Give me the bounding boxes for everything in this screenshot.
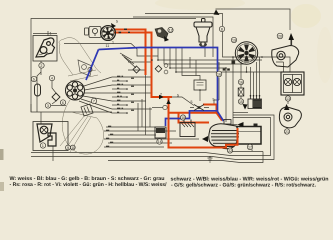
number 3 ring (45, 103, 50, 108)
pilot lamp symbol (37, 124, 56, 146)
connector block right (232, 61, 235, 64)
number 16 ring fuse column (238, 79, 243, 84)
terminal dots column (126, 80, 128, 114)
number 12 ring (168, 27, 173, 32)
wire: ladder drop 3 / bus y68 to engine (170, 48, 226, 123)
arrow up right (289, 33, 295, 45)
wire: red engine feed (203, 105, 222, 121)
svg-text:5: 5 (116, 20, 118, 24)
arrow at coil (214, 10, 220, 16)
wire: terminal stub y81 (112, 80, 127, 82)
wire: terminal stub y97 (112, 96, 127, 98)
wire: vertical x196 (195, 60, 197, 76)
wire: ring 3 to stator (51, 105, 66, 107)
wire: blue main run (99, 48, 218, 112)
wire: center mesh y62 (128, 61, 152, 63)
wire: rear lamp to number 21 (286, 128, 288, 129)
wire: handlebar line with label 1 (64, 44, 158, 57)
svg-text:19: 19 (232, 38, 236, 42)
number 14 ring (157, 139, 162, 144)
engine block (209, 120, 239, 149)
regulator rectifier (248, 95, 262, 109)
junction dots (151, 56, 263, 91)
wire: harness line y143 (108, 142, 172, 144)
svg-text:22: 22 (228, 149, 232, 153)
switch small box (194, 80, 206, 101)
arrow on red vertical (166, 100, 170, 105)
wire: stator fan line 5 (81, 99, 112, 109)
svg-text:1: 1 (42, 144, 44, 148)
headlamp housing box (33, 36, 57, 62)
number 2 ring (39, 63, 44, 68)
svg-text:5: 5 (33, 78, 35, 82)
wire: lamp unit drop (52, 146, 54, 161)
label 11 blue (106, 44, 110, 48)
diamond junction upper (133, 66, 140, 73)
wire: stator fan line 6 (79, 101, 112, 113)
wire: ladder drop 4 / bus y72 to tail lamp (176, 48, 281, 73)
arrow at regulator (243, 104, 248, 110)
number 10 ring solenoid (180, 115, 185, 120)
svg-text:16: 16 (217, 73, 221, 77)
wire: harness line y139 (104, 138, 199, 140)
wire: red branch to solenoid and engine left (179, 113, 210, 123)
arrow at rear lamp (284, 104, 290, 110)
label 1 at headlamp (50, 32, 52, 36)
wire: blue engine feed (218, 112, 224, 122)
battery (237, 124, 261, 145)
arrow on red mid (159, 95, 164, 99)
wire: terminal stub y101 (112, 100, 146, 102)
wire: right column vertical x233 (232, 57, 234, 125)
wire: terminal stub y89 (112, 88, 127, 90)
flywheel fan (235, 42, 257, 64)
label 2 at red arrow (160, 92, 162, 96)
svg-text:W: weiss - Bl: blau - G: gelb: W: weiss - Bl: blau - G: gelb - B: braun… (10, 176, 165, 182)
speedometer wheel (101, 26, 116, 41)
svg-text:11: 11 (106, 44, 110, 48)
paper stain top (155, 0, 245, 10)
wire: terminal stub y105 (112, 104, 127, 106)
wire: stator fan line 4 (83, 96, 112, 101)
speedometer lamp box (85, 27, 102, 38)
label ring b (164, 70, 168, 74)
number 18 ring (230, 140, 235, 146)
number 16 ring right (216, 71, 222, 77)
wire: condenser branch (37, 61, 41, 112)
arrow at speedometer (111, 23, 116, 28)
number 11 ring mid (163, 105, 167, 109)
svg-text:5: 5 (213, 97, 215, 101)
edge smudge left bottom (0, 182, 4, 191)
wire: red lighting lead upper (114, 30, 146, 76)
number 20 ring (277, 33, 283, 39)
wire: x146 continuation (145, 75, 147, 113)
rear lamp (279, 107, 301, 128)
svg-text:- Rs: rosa - R: rot - Vi: viol: - Rs: rosa - R: rot - Vi: violett - Gü: … (10, 182, 168, 188)
number 8 ring (219, 26, 224, 31)
svg-text:21: 21 (285, 130, 289, 134)
wire: fan feed (246, 67, 248, 73)
wire: blue return zigzag (166, 111, 218, 126)
wire: terminal stub y109 (112, 108, 152, 110)
label 5 left of switch (191, 100, 193, 104)
svg-text:9: 9 (67, 146, 69, 150)
condenser (35, 84, 41, 96)
number 22 ring (227, 148, 232, 153)
wire: stator fan line 1 (84, 77, 112, 86)
svg-text:schwarz - W/Bl: weiss/blau - W: schwarz - W/Bl: weiss/blau - W/R: weiss/… (171, 176, 329, 182)
wire: contact breaker branch (52, 81, 56, 104)
wire: battery sense line (230, 124, 238, 126)
pedal lever (78, 60, 92, 76)
ground symbol (208, 156, 213, 162)
wire: stub link to ring 11 (152, 107, 163, 109)
wire: link red end to stop switch (172, 97, 194, 106)
number 10 ring (70, 145, 75, 150)
wire: second top stepped line (133, 17, 213, 57)
number 17 ring (247, 144, 252, 149)
wire: headlamp box feed (33, 31, 57, 36)
wire: bottom frame line 1 (31, 118, 271, 156)
wire: terminal stub y93 (112, 92, 152, 94)
svg-text:5: 5 (191, 100, 193, 104)
wire: blue left tail (86, 50, 99, 81)
svg-text:7: 7 (93, 100, 95, 104)
edge smudge left middle (0, 149, 4, 160)
contact breaker diamond (52, 93, 60, 101)
svg-text:6: 6 (62, 101, 64, 105)
legend text (10, 176, 329, 189)
small labels misc (119, 29, 131, 34)
fuse (238, 88, 244, 96)
headlamp reflector (36, 38, 55, 57)
wire: tail lamp feeds (276, 62, 284, 72)
svg-text:16: 16 (239, 80, 243, 84)
number 1 ring bottom left (40, 143, 45, 148)
wire: stub drop x146 (145, 113, 147, 135)
number 7 ring (91, 98, 96, 103)
number 6 ring (60, 100, 65, 105)
svg-text:20: 20 (278, 34, 282, 38)
label ring a (164, 64, 168, 68)
number 9 ring (66, 145, 71, 150)
wire: stub drop x150 (149, 108, 151, 128)
wire: harness line y131 (104, 130, 176, 132)
wire: red lighting lead main (114, 33, 172, 98)
wire: red branch to solenoid (169, 112, 217, 114)
paper stain top right (291, 4, 321, 28)
svg-text:1: 1 (251, 148, 253, 152)
wire: top stepped line to right column (145, 14, 290, 73)
number 21 ring (284, 129, 289, 134)
wire: bottom frame line 3 (108, 152, 263, 163)
wire labels smudges column 1 (117, 76, 123, 113)
number 15 ring (238, 99, 243, 104)
wire: stator fan line 3 (85, 92, 113, 94)
wire: top main harness line (31, 19, 196, 113)
wire: terminal stub y85 (112, 84, 152, 86)
frame outline of scooter body (59, 38, 104, 154)
svg-text:3: 3 (47, 104, 49, 108)
svg-text:15: 15 (239, 100, 243, 104)
wire: harness line y135 (108, 134, 156, 136)
tail light box (281, 72, 304, 95)
ignition coil (194, 19, 212, 47)
tail lamp unit box bottom left (33, 122, 68, 151)
svg-text:14: 14 (158, 140, 162, 144)
solenoid (180, 120, 195, 137)
wire: ladder drop 1 / bus y60 (158, 48, 262, 61)
svg-text:1: 1 (50, 32, 52, 36)
svg-text:10: 10 (71, 146, 75, 150)
wire: tail box to number 13 (287, 95, 289, 104)
junction block (155, 127, 166, 138)
wire: stator fan line 2 (85, 85, 113, 90)
ignition switch tilted box (81, 104, 93, 116)
wire: speedometer link (100, 30, 101, 32)
wire: line 1 under battery (230, 151, 263, 153)
number 4 ring (49, 75, 54, 80)
svg-text:12: 12 (169, 28, 173, 32)
label 1 under battery (251, 148, 253, 152)
label 1 handlebar (112, 41, 114, 45)
wire: harness line y147 (104, 146, 164, 148)
paper stain right (317, 27, 333, 83)
label 5 at switch (177, 93, 179, 97)
stop switch cross (194, 105, 204, 111)
wire: stub drop x138 (137, 103, 139, 131)
svg-text:2: 2 (40, 64, 42, 68)
svg-text:1: 1 (112, 41, 114, 45)
wire: coil bottom feed (204, 47, 206, 57)
wire: diag connector fan (120, 53, 136, 68)
wire: vertical x190 (189, 57, 191, 68)
dimmer switch blob (155, 28, 169, 42)
number 13 ring (285, 96, 290, 101)
svg-text:5: 5 (177, 93, 179, 97)
svg-text:10: 10 (181, 116, 185, 120)
label 5 top (116, 20, 118, 24)
svg-text:13: 13 (286, 97, 290, 101)
svg-text:4: 4 (51, 77, 53, 81)
wire: regulator feeds (251, 57, 260, 95)
wire: bottom frame line 2 (31, 115, 274, 160)
number 19 ring (231, 37, 236, 42)
wire: coil to horn top line (216, 9, 291, 30)
diamond junction 2 (155, 66, 162, 73)
svg-text:- G/S: gelb/schwarz - Gü/S: gr: - G/S: gelb/schwarz - Gü/S: grün/schwarz… (171, 183, 317, 189)
wire labels smudges column 2 (131, 78, 134, 111)
number 5 ring (31, 76, 36, 81)
wire: stub drop x142 (141, 99, 143, 127)
wire: harness line y127 (106, 126, 155, 128)
wire: stop switch stubs (190, 100, 219, 108)
stator plate (66, 81, 85, 100)
wire: ladder drop 2 / bus y64 (164, 48, 246, 65)
wire: terminal stub y77 (112, 76, 152, 78)
label 5 right of switch (213, 97, 215, 101)
wire: contact 16 drop (218, 62, 220, 100)
harness labels bottom (106, 126, 113, 147)
horn lamp (272, 46, 299, 68)
connector dashes (223, 69, 230, 71)
wire: center mesh y70 (128, 69, 146, 71)
wire: terminal stub y113 (112, 112, 127, 114)
svg-text:8: 8 (221, 28, 223, 32)
wire: red drop to bottom run and battery (169, 96, 238, 148)
arrow at engine (202, 136, 208, 142)
wire: fuse feed x241 (240, 62, 242, 99)
label ring c (88, 67, 92, 71)
arrow at battery (238, 122, 244, 127)
wire: ladder drop 5 to switch box (182, 48, 200, 81)
wire: left long horizontal y112 (31, 104, 112, 124)
wire: bus y112.5 right (233, 112, 248, 114)
